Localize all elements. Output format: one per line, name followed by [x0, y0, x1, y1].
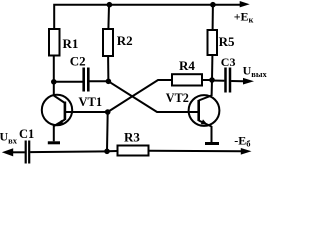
svg-text:R3: R3 — [124, 130, 140, 145]
svg-text:VT2: VT2 — [166, 91, 189, 105]
svg-text:VT1: VT1 — [79, 95, 103, 109]
svg-text:C1: C1 — [19, 127, 34, 141]
svg-text:R5: R5 — [219, 34, 235, 49]
svg-text:R1: R1 — [63, 36, 79, 51]
svg-text:C2: C2 — [70, 54, 86, 69]
svg-text:R4: R4 — [179, 58, 195, 73]
svg-text:C3: C3 — [221, 55, 236, 69]
svg-text:R2: R2 — [117, 33, 133, 48]
